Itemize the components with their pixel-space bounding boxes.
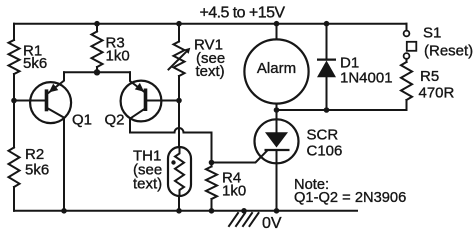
node SCR cathode to 0V rail bbox=[274, 208, 280, 214]
svg-text:text): text) bbox=[133, 176, 162, 193]
node R4 top / gate junction bbox=[209, 160, 215, 166]
alarm (bell/sounder) bbox=[244, 21, 308, 110]
node RV1-Q2 base-TH1 junction bbox=[176, 98, 182, 104]
resistor R5 bbox=[401, 59, 455, 102]
svg-text:1N4001: 1N4001 bbox=[340, 70, 393, 87]
resistor R1 bbox=[9, 24, 48, 101]
node R4 to 0V rail bbox=[209, 208, 215, 214]
resistor R2 bbox=[9, 101, 50, 211]
svg-text:SCR: SCR bbox=[307, 127, 339, 144]
svg-text:R5: R5 bbox=[420, 68, 439, 85]
thermistor TH1 bbox=[133, 101, 191, 211]
wire Q2 collector to R4/SCR gate (hop over TH1 line) bbox=[130, 128, 212, 163]
node R3-emitter junction bbox=[94, 69, 100, 75]
svg-text:R2: R2 bbox=[25, 146, 44, 163]
wire anode row to R5 bbox=[277, 100, 407, 110]
svg-text:0V: 0V bbox=[262, 215, 282, 232]
node Q1 collector to 0V rail bbox=[61, 208, 67, 214]
svg-text:1k0: 1k0 bbox=[222, 183, 246, 200]
switch S1 (Reset) bbox=[404, 24, 474, 60]
wire 0V bottom rail bbox=[14, 210, 357, 212]
ground 0V symbol bbox=[229, 208, 259, 226]
svg-text:Q1-Q2 = 2N3906: Q1-Q2 = 2N3906 bbox=[294, 190, 406, 206]
svg-text:5k6: 5k6 bbox=[23, 55, 47, 72]
svg-text:text): text) bbox=[196, 63, 225, 80]
svg-text:1k0: 1k0 bbox=[106, 48, 130, 65]
thyristor SCR C106 bbox=[255, 110, 299, 211]
svg-text:S1: S1 bbox=[423, 25, 441, 42]
diode D1 bbox=[317, 21, 393, 110]
node R1-R2-Q1 base junction bbox=[11, 98, 17, 104]
wire +V top rail bbox=[14, 23, 407, 25]
svg-text:+4.5 to +15V: +4.5 to +15V bbox=[200, 4, 286, 21]
node D1 to anode row bbox=[324, 107, 330, 113]
wire SCR gate bbox=[212, 151, 268, 163]
svg-text:C106: C106 bbox=[307, 143, 343, 160]
svg-text:Q1: Q1 bbox=[72, 112, 92, 129]
wire Q1-Q2 emitter rail bbox=[64, 71, 130, 73]
node alarm-D1-SCR anode junction bbox=[274, 107, 280, 113]
resistor R3 bbox=[92, 21, 130, 72]
svg-text:Q2: Q2 bbox=[105, 112, 125, 129]
svg-text:(Reset): (Reset) bbox=[424, 43, 473, 60]
variable resistor RV1 bbox=[169, 21, 226, 101]
node TH1 to 0V rail bbox=[176, 208, 182, 214]
svg-text:5k6: 5k6 bbox=[25, 162, 49, 179]
resistor R4 bbox=[206, 163, 246, 211]
svg-text:Alarm: Alarm bbox=[257, 60, 296, 77]
transistor Q2 (PNP) bbox=[121, 72, 179, 132]
transistor Q1 (PNP) bbox=[14, 72, 71, 211]
svg-text:470R: 470R bbox=[419, 85, 455, 102]
